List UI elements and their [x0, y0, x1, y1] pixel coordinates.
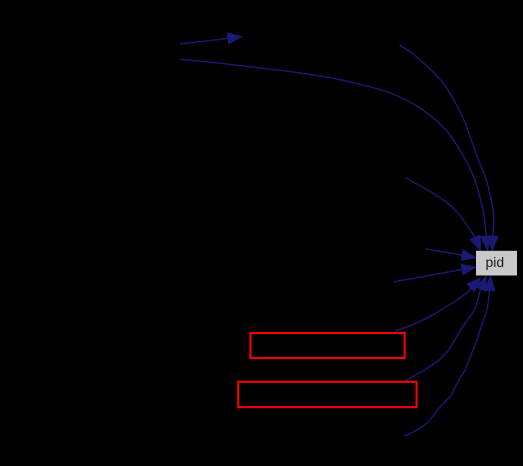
edge E7: red box 1 to pid	[395, 278, 480, 331]
edge E9: hidden bottom node to pid	[404, 276, 495, 436]
svg-text:pid: pid	[485, 254, 504, 270]
edge E2: hidden left node to pid	[180, 59, 491, 250]
edge E4: hidden middle node to pid	[405, 178, 480, 251]
truncated node box 2 (red border)	[238, 382, 416, 407]
edge E8: red box 2 to pid	[404, 276, 486, 382]
truncated node box 1 (red border)	[250, 333, 404, 358]
edge E1: hidden node to hidden node (top arrow)	[180, 33, 242, 44]
node pid (current file, gray fill)	[476, 251, 517, 276]
edge E6: hidden node to pid (lower left arrow)	[394, 264, 476, 282]
edge E5: hidden node to pid (upper left arrow)	[426, 249, 476, 260]
edge E3: hidden top node to pid	[400, 45, 499, 250]
